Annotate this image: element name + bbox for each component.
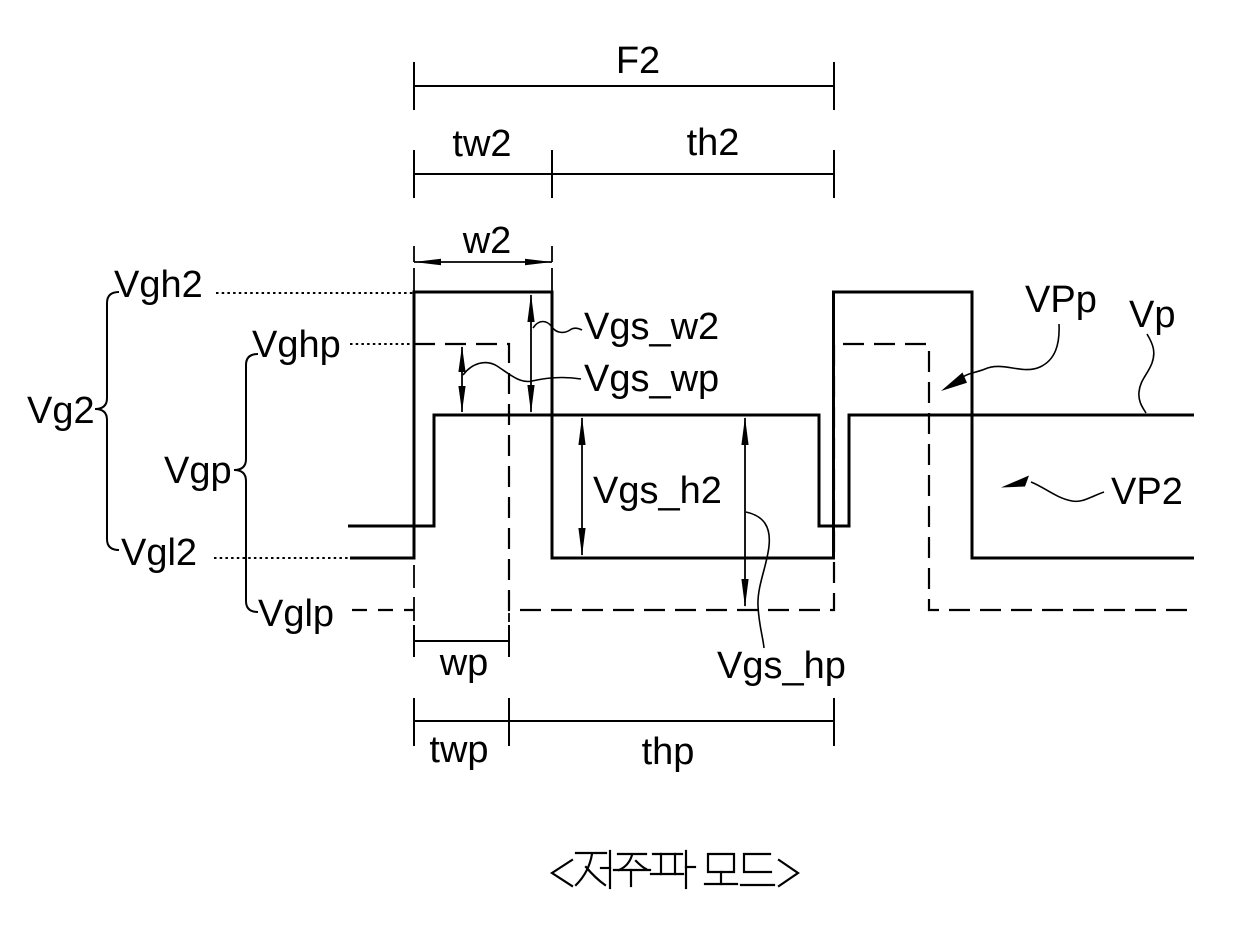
svg-text:Vghp: Vghp xyxy=(252,324,341,366)
svg-text:th2: th2 xyxy=(687,122,740,164)
svg-text:wp: wp xyxy=(439,642,489,684)
svg-text:Vgp: Vgp xyxy=(164,450,232,492)
svg-text:tw2: tw2 xyxy=(452,123,511,165)
svg-text:Vgs_wp: Vgs_wp xyxy=(584,358,719,400)
svg-text:w2: w2 xyxy=(462,220,512,262)
svg-text:VP2: VP2 xyxy=(1111,471,1183,513)
svg-text:Vg2: Vg2 xyxy=(27,390,95,432)
svg-text:Vgs_h2: Vgs_h2 xyxy=(593,470,722,512)
svg-text:VPp: VPp xyxy=(1025,279,1097,321)
svg-text:thp: thp xyxy=(642,731,695,773)
svg-text:twp: twp xyxy=(429,729,488,771)
svg-text:Vp: Vp xyxy=(1129,294,1175,336)
svg-text:Vglp: Vglp xyxy=(258,593,334,635)
svg-text:F2: F2 xyxy=(616,40,660,82)
svg-text:Vgs_hp: Vgs_hp xyxy=(717,645,846,687)
svg-text:Vgh2: Vgh2 xyxy=(114,264,203,306)
svg-text:Vgs_w2: Vgs_w2 xyxy=(584,306,719,348)
svg-text:Vgl2: Vgl2 xyxy=(121,532,197,574)
